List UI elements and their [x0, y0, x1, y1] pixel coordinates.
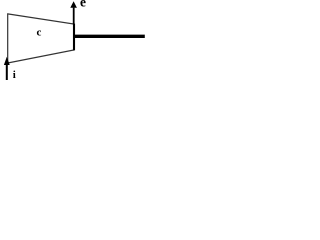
shaft (thick line) — [74, 35, 145, 38]
inlet arrowhead — [4, 57, 10, 65]
inlet arrow i (wire) — [6, 65, 8, 81]
svg-text:e: e — [80, 0, 86, 10]
exit arrowhead — [70, 1, 77, 8]
svg-text:c: c — [37, 27, 42, 39]
background — [0, 0, 148, 82]
exit arrow e (wire) — [73, 8, 75, 25]
svg-text:i: i — [13, 69, 16, 81]
compressor body C (trapezoid) — [8, 14, 74, 63]
right edge of trapezoid (thick) — [73, 24, 75, 51]
